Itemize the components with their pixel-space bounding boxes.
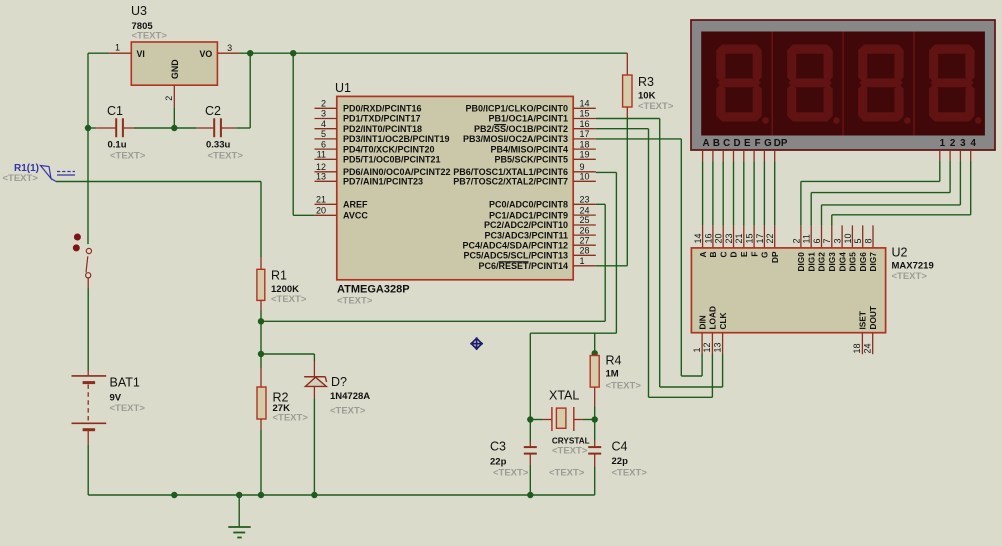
svg-text:23: 23 bbox=[580, 195, 590, 205]
svg-text:5: 5 bbox=[853, 238, 863, 243]
svg-text:PD2/INT0/PCINT18: PD2/INT0/PCINT18 bbox=[343, 124, 422, 134]
svg-text:DIG2: DIG2 bbox=[817, 252, 827, 272]
svg-text:21: 21 bbox=[316, 195, 326, 205]
svg-text:16: 16 bbox=[703, 233, 713, 243]
svg-text:9: 9 bbox=[580, 162, 585, 172]
svg-text:PC5/ADC5/SCL/PCINT13: PC5/ADC5/SCL/PCINT13 bbox=[463, 251, 568, 261]
svg-text:11: 11 bbox=[317, 150, 326, 160]
svg-text:<TEXT>: <TEXT> bbox=[208, 151, 244, 162]
svg-text:18: 18 bbox=[580, 139, 590, 149]
svg-text:CRYSTAL: CRYSTAL bbox=[552, 437, 590, 446]
svg-text:PD4/T0/XCK/PCINT20: PD4/T0/XCK/PCINT20 bbox=[343, 144, 435, 154]
svg-text:PD6/AIN0/OC0A/PCINT22: PD6/AIN0/OC0A/PCINT22 bbox=[343, 167, 451, 177]
svg-text:F: F bbox=[749, 252, 759, 257]
svg-text:D: D bbox=[729, 252, 739, 258]
svg-text:<TEXT>: <TEXT> bbox=[612, 468, 648, 479]
svg-text:DOUT: DOUT bbox=[868, 306, 878, 330]
svg-text:<TEXT>: <TEXT> bbox=[549, 468, 585, 479]
svg-text:6: 6 bbox=[321, 139, 326, 149]
svg-text:PB3/MOSI/OC2A/PCINT3: PB3/MOSI/OC2A/PCINT3 bbox=[463, 134, 568, 144]
svg-text:3: 3 bbox=[833, 238, 843, 243]
svg-text:BAT1: BAT1 bbox=[110, 376, 140, 390]
svg-text:6: 6 bbox=[812, 238, 822, 243]
svg-text:<TEXT>: <TEXT> bbox=[3, 173, 39, 184]
svg-text:B: B bbox=[708, 252, 718, 258]
svg-text:<TEXT>: <TEXT> bbox=[330, 406, 366, 417]
svg-text:U1: U1 bbox=[335, 81, 351, 95]
svg-text:13: 13 bbox=[316, 172, 326, 182]
svg-text:1M: 1M bbox=[606, 369, 619, 380]
svg-text:24: 24 bbox=[580, 205, 590, 215]
svg-text:4: 4 bbox=[321, 119, 326, 129]
svg-text:C: C bbox=[718, 252, 728, 258]
svg-text:MAX7219: MAX7219 bbox=[892, 261, 934, 272]
svg-text:3: 3 bbox=[321, 109, 326, 119]
svg-text:12: 12 bbox=[316, 162, 326, 172]
svg-text:1N4728A: 1N4728A bbox=[330, 391, 370, 402]
svg-text:19: 19 bbox=[580, 150, 590, 160]
svg-text:9V: 9V bbox=[110, 393, 122, 404]
svg-text:R1: R1 bbox=[271, 269, 287, 283]
svg-text:<TEXT>: <TEXT> bbox=[110, 403, 146, 414]
svg-text:PC3/ADC3/PCINT11: PC3/ADC3/PCINT11 bbox=[484, 230, 568, 240]
svg-text:DP: DP bbox=[770, 251, 780, 263]
svg-text:R3: R3 bbox=[638, 75, 654, 89]
svg-text:VO: VO bbox=[200, 49, 213, 59]
svg-text:R4: R4 bbox=[606, 354, 622, 368]
svg-text:<TEXT>: <TEXT> bbox=[892, 271, 928, 282]
svg-text:XTAL: XTAL bbox=[549, 389, 579, 403]
svg-text:7: 7 bbox=[822, 238, 832, 243]
svg-text:AVCC: AVCC bbox=[343, 210, 368, 220]
svg-text:PC1/ADC1/PCINT9: PC1/ADC1/PCINT9 bbox=[489, 210, 568, 220]
svg-text:DIG6: DIG6 bbox=[858, 252, 868, 272]
svg-text:20: 20 bbox=[714, 233, 724, 243]
svg-text:22p: 22p bbox=[612, 456, 629, 467]
svg-text:1: 1 bbox=[115, 43, 120, 53]
svg-text:PC6/RESET/PCINT14: PC6/RESET/PCINT14 bbox=[478, 261, 568, 271]
svg-text:<TEXT>: <TEXT> bbox=[110, 151, 146, 162]
svg-text:27: 27 bbox=[580, 235, 590, 245]
svg-text:E: E bbox=[744, 138, 751, 149]
svg-text:PD1/TXD/PCINT17: PD1/TXD/PCINT17 bbox=[343, 114, 421, 124]
svg-text:<TEXT>: <TEXT> bbox=[337, 296, 373, 307]
svg-text:DP: DP bbox=[774, 138, 788, 149]
svg-text:18: 18 bbox=[852, 343, 862, 353]
svg-text:<TEXT>: <TEXT> bbox=[606, 381, 642, 392]
svg-text:<TEXT>: <TEXT> bbox=[273, 413, 309, 424]
svg-text:U3: U3 bbox=[131, 4, 147, 18]
svg-text:24: 24 bbox=[863, 343, 873, 353]
svg-text:ISET: ISET bbox=[858, 311, 868, 329]
svg-text:2: 2 bbox=[164, 96, 174, 101]
svg-text:PD7/AIN1/PCINT23: PD7/AIN1/PCINT23 bbox=[343, 177, 423, 187]
svg-text:D?: D? bbox=[331, 375, 347, 389]
svg-text:PB6/TOSC1/XTAL1/PCINT6: PB6/TOSC1/XTAL1/PCINT6 bbox=[453, 167, 568, 177]
svg-text:DIN: DIN bbox=[697, 315, 707, 329]
svg-text:<TEXT>: <TEXT> bbox=[493, 468, 529, 479]
svg-text:<TEXT>: <TEXT> bbox=[271, 294, 307, 305]
svg-text:17: 17 bbox=[755, 233, 765, 243]
svg-text:<TEXT>: <TEXT> bbox=[132, 31, 168, 42]
svg-text:10: 10 bbox=[580, 172, 590, 182]
svg-text:PB5/SCK/PCINT5: PB5/SCK/PCINT5 bbox=[494, 155, 568, 165]
svg-text:15: 15 bbox=[745, 233, 755, 243]
svg-text:0.1u: 0.1u bbox=[108, 140, 127, 151]
svg-text:22p: 22p bbox=[490, 457, 507, 468]
svg-text:B: B bbox=[713, 138, 720, 149]
svg-text:PB4/MISO/PCINT4: PB4/MISO/PCINT4 bbox=[490, 144, 568, 154]
svg-text:8: 8 bbox=[863, 238, 873, 243]
svg-text:20: 20 bbox=[316, 205, 326, 215]
svg-text:C4: C4 bbox=[612, 440, 628, 454]
svg-text:14: 14 bbox=[693, 233, 703, 243]
svg-text:A: A bbox=[698, 252, 708, 258]
svg-text:ATMEGA328P: ATMEGA328P bbox=[337, 284, 410, 296]
svg-text:1: 1 bbox=[692, 347, 702, 352]
svg-text:LOAD: LOAD bbox=[708, 306, 718, 330]
svg-text:22: 22 bbox=[765, 233, 775, 243]
svg-text:PB2/SS/OC1B/PCINT2: PB2/SS/OC1B/PCINT2 bbox=[474, 124, 568, 134]
svg-text:PC2/ADC2/PCINT10: PC2/ADC2/PCINT10 bbox=[484, 220, 568, 230]
svg-text:AREF: AREF bbox=[343, 200, 368, 210]
svg-text:DIG1: DIG1 bbox=[806, 252, 816, 272]
svg-text:16: 16 bbox=[580, 119, 590, 129]
svg-text:C: C bbox=[723, 138, 730, 149]
svg-text:DIG5: DIG5 bbox=[848, 252, 858, 272]
svg-text:PD5/T1/OC0B/PCINT21: PD5/T1/OC0B/PCINT21 bbox=[343, 155, 441, 165]
svg-text:GND: GND bbox=[170, 59, 180, 79]
svg-text:3: 3 bbox=[960, 138, 966, 149]
svg-text:3: 3 bbox=[227, 43, 232, 53]
svg-text:PB0/ICP1/CLKO/PCINT0: PB0/ICP1/CLKO/PCINT0 bbox=[465, 104, 568, 114]
svg-text:1: 1 bbox=[940, 138, 946, 149]
svg-text:1: 1 bbox=[580, 256, 585, 266]
svg-text:2: 2 bbox=[321, 99, 326, 109]
svg-text:A: A bbox=[703, 138, 710, 149]
svg-text:12: 12 bbox=[702, 342, 712, 352]
svg-text:2: 2 bbox=[950, 138, 956, 149]
svg-text:PD3/INT1/OC2B/PCINT19: PD3/INT1/OC2B/PCINT19 bbox=[343, 134, 450, 144]
svg-text:G: G bbox=[760, 252, 770, 258]
svg-text:D: D bbox=[733, 138, 740, 149]
svg-text:<TEXT>: <TEXT> bbox=[552, 446, 588, 457]
svg-text:E: E bbox=[739, 251, 749, 257]
svg-text:<TEXT>: <TEXT> bbox=[638, 101, 674, 112]
svg-text:DIG7: DIG7 bbox=[868, 252, 878, 272]
svg-text:PB1/OC1A/PCINT1: PB1/OC1A/PCINT1 bbox=[488, 114, 568, 124]
svg-text:C1: C1 bbox=[107, 104, 123, 118]
svg-text:14: 14 bbox=[580, 99, 590, 109]
svg-text:C3: C3 bbox=[490, 440, 506, 454]
svg-text:10: 10 bbox=[843, 233, 853, 243]
svg-text:23: 23 bbox=[724, 233, 734, 243]
svg-text:5: 5 bbox=[321, 129, 326, 139]
svg-text:0.33u: 0.33u bbox=[206, 140, 230, 151]
svg-text:4: 4 bbox=[970, 138, 976, 149]
svg-text:F: F bbox=[755, 138, 761, 149]
svg-text:DIG3: DIG3 bbox=[827, 252, 837, 272]
svg-text:2: 2 bbox=[791, 238, 801, 243]
svg-text:CLK: CLK bbox=[718, 312, 728, 329]
svg-text:PC4/ADC4/SDA/PCINT12: PC4/ADC4/SDA/PCINT12 bbox=[462, 240, 568, 250]
svg-text:11: 11 bbox=[802, 234, 812, 243]
svg-text:17: 17 bbox=[580, 129, 590, 139]
svg-text:C2: C2 bbox=[205, 104, 221, 118]
svg-text:PD0/RXD/PCINT16: PD0/RXD/PCINT16 bbox=[343, 104, 422, 114]
svg-text:DIG0: DIG0 bbox=[796, 252, 806, 272]
svg-text:21: 21 bbox=[734, 233, 744, 243]
svg-text:25: 25 bbox=[580, 215, 590, 225]
svg-text:U2: U2 bbox=[892, 246, 908, 260]
svg-text:28: 28 bbox=[580, 246, 590, 256]
svg-text:DIG4: DIG4 bbox=[837, 252, 847, 272]
svg-text:PB7/TOSC2/XTAL2/PCINT7: PB7/TOSC2/XTAL2/PCINT7 bbox=[453, 177, 568, 187]
svg-text:VI: VI bbox=[137, 49, 145, 59]
svg-text:G: G bbox=[764, 138, 772, 149]
svg-text:13: 13 bbox=[712, 342, 722, 352]
svg-text:PC0/ADC0/PCINT8: PC0/ADC0/PCINT8 bbox=[489, 200, 568, 210]
svg-text:26: 26 bbox=[580, 225, 590, 235]
svg-text:15: 15 bbox=[580, 109, 590, 119]
